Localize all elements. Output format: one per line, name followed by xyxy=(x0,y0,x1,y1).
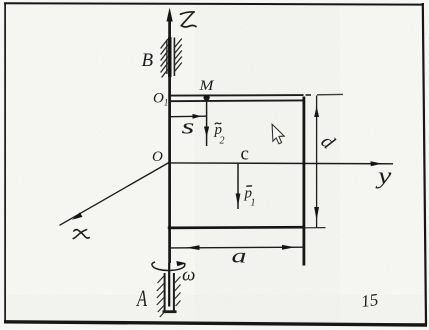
frame border xyxy=(4,3,424,4)
d up arrowhead xyxy=(314,106,319,117)
svg-text:y: y xyxy=(375,162,393,189)
label M xyxy=(198,78,214,94)
label p1 xyxy=(244,186,256,209)
label x xyxy=(73,230,89,239)
a left arrowhead xyxy=(186,245,200,250)
svg-text:a: a xyxy=(232,244,247,267)
d down arrowhead xyxy=(314,207,319,221)
plate bottom edge xyxy=(168,226,305,229)
svg-text:M: M xyxy=(198,78,214,94)
bearing A hatching right xyxy=(175,277,181,307)
svg-text:15: 15 xyxy=(360,290,379,311)
bearing A sleeve bottom xyxy=(163,310,177,313)
vector p1 arrowhead xyxy=(236,194,241,207)
svg-text:s: s xyxy=(182,115,195,139)
dimension a line xyxy=(171,246,305,249)
bearing A hatching left xyxy=(157,276,165,317)
mouse cursor xyxy=(272,124,284,144)
bearing B hatching right xyxy=(175,39,182,72)
bearing B wall right line xyxy=(173,38,175,77)
rod lower part in bearing xyxy=(168,263,170,307)
label s xyxy=(182,115,195,139)
s arrowhead xyxy=(193,114,202,119)
y axis arrowhead xyxy=(371,161,383,166)
label A xyxy=(135,286,147,312)
point M dot xyxy=(204,95,210,101)
svg-text:ω: ω xyxy=(182,265,195,286)
label a xyxy=(232,244,247,267)
bottom edge extension xyxy=(305,227,326,229)
plate top edge upper line xyxy=(170,94,304,97)
label p2 xyxy=(214,122,225,147)
bearing B hatching left xyxy=(161,39,168,78)
z axis arrow xyxy=(167,8,173,22)
omega arc arrowhead xyxy=(176,261,186,266)
bearing A sleeve right xyxy=(173,273,175,311)
dimension d line xyxy=(316,96,318,228)
bearing A sleeve left xyxy=(164,273,166,311)
plate right edge xyxy=(302,97,305,266)
bearing B wall left line xyxy=(166,40,168,74)
svg-text:A: A xyxy=(135,286,147,312)
label z xyxy=(181,12,197,27)
svg-text:B: B xyxy=(142,50,154,71)
plate top edge lower line xyxy=(170,99,303,102)
svg-text:1: 1 xyxy=(251,198,256,209)
rod (axis AB) xyxy=(168,20,171,263)
vector p1 shaft xyxy=(237,163,239,209)
vector p2 shaft xyxy=(206,99,208,146)
vector p2 arrowhead xyxy=(204,127,209,138)
svg-text:O: O xyxy=(152,149,163,165)
svg-text:2: 2 xyxy=(220,136,225,147)
omega rotation arc xyxy=(152,262,185,271)
s arrow line xyxy=(171,115,206,118)
y axis xyxy=(170,162,393,165)
x axis arrowhead xyxy=(72,212,83,219)
svg-text:c: c xyxy=(241,144,249,165)
x axis xyxy=(60,163,169,226)
label y xyxy=(375,162,393,189)
a right arrowhead xyxy=(282,245,295,250)
